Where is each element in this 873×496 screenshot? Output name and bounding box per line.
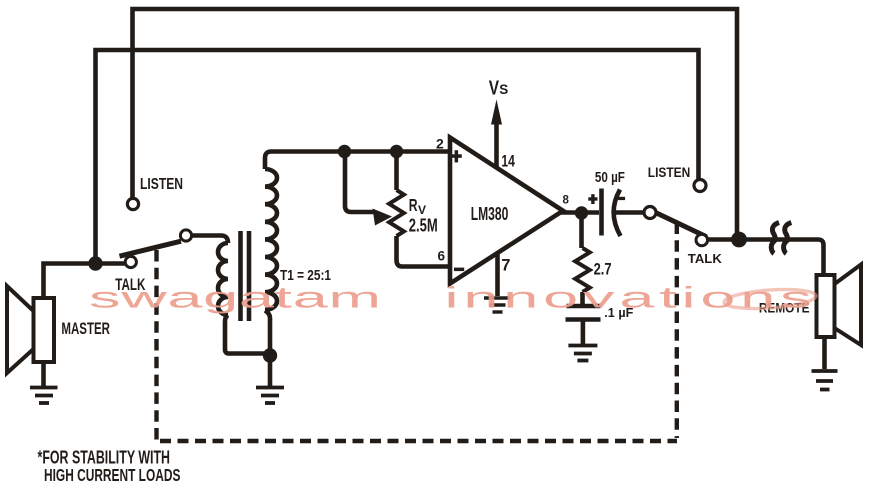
wire: master speaker top to talk wire — [44, 264, 93, 299]
wire: output pin 8 — [559, 210, 599, 215]
watermark: swagatam innovations — [89, 281, 812, 314]
svg-text:8: 8 — [563, 194, 570, 206]
dashed gang link: left vertical — [154, 250, 158, 441]
svg-text:LISTEN: LISTEN — [648, 165, 691, 180]
wire: inner top rail (left TALK bus to right LISTEN) — [96, 50, 699, 264]
ground (under REMOTE) — [812, 371, 838, 390]
svg-text:14: 14 — [501, 153, 515, 171]
svg-text:R: R — [409, 195, 418, 215]
svg-text:V: V — [489, 78, 500, 100]
wire: C1 to right pole — [612, 210, 644, 215]
transformer T1 secondary winding — [265, 169, 277, 310]
svg-text:swagatam: swagatam — [89, 281, 381, 314]
label T1 = 25:1 — [280, 267, 331, 284]
minus sign (C1) — [618, 197, 625, 200]
wire: Rv bottom to pin 6 — [397, 236, 451, 267]
label 14 — [501, 153, 515, 171]
switch arm (right) — [656, 213, 707, 237]
node: output junction dot — [575, 206, 588, 219]
node: junction dot (Rv top) — [390, 145, 403, 158]
label LISTEN (left) — [140, 176, 183, 193]
node: right switch pole — [644, 207, 656, 219]
wire break squiggle 1 — [771, 223, 779, 254]
capacitor C1 50uF curved plate — [614, 190, 621, 237]
node: right TALK contact — [696, 234, 708, 246]
node: transformer ground junction — [263, 348, 277, 362]
note: stability footnote line 2 — [44, 465, 180, 485]
ground (under MASTER) — [30, 388, 58, 404]
node: right LISTEN terminal — [694, 180, 706, 192]
resistor R1 2.7 wire from dot — [579, 213, 584, 248]
pin 8 label — [563, 194, 570, 206]
wire: remote speaker to ground — [822, 337, 827, 369]
svg-text:MASTER: MASTER — [61, 320, 110, 338]
wire: right talk contact to remote speaker — [708, 240, 824, 276]
svg-text:2.7: 2.7 — [594, 261, 612, 279]
ground (pin 7) — [484, 298, 510, 312]
wire: secondary bottom to junction — [265, 310, 270, 350]
wire: secondary top to pin 2 — [265, 152, 451, 170]
wire: outer top rail (left LISTEN to right TALK bus) — [133, 9, 738, 240]
node: junction dot (wiper branch) — [338, 145, 351, 158]
svg-text:LISTEN: LISTEN — [140, 176, 183, 193]
label 50uF — [595, 170, 625, 186]
node: left TALK contact — [125, 256, 136, 267]
dashed gang link: bottom horizontal — [160, 439, 677, 443]
wire: C2 to ground — [581, 322, 586, 345]
node: junction dot left (inner rail to talk wire) — [88, 256, 102, 270]
svg-text:7: 7 — [501, 256, 510, 274]
svg-text:LM380: LM380 — [471, 204, 509, 224]
svg-text:TALK: TALK — [688, 251, 723, 266]
wire: dot to left TALK contact — [96, 261, 127, 266]
wire: primary bottom to junction — [225, 315, 266, 354]
label REMOTE — [759, 300, 810, 316]
speaker REMOTE — [817, 265, 862, 346]
resistor Rv 2.5M (zigzag) — [389, 190, 404, 236]
label MASTER — [61, 320, 110, 338]
op-amp U1 LM380 — [450, 138, 563, 284]
plus input symbol — [451, 150, 462, 162]
Vs supply arrow — [491, 100, 502, 125]
label Vs — [489, 78, 509, 100]
wire: master speaker bottom to ground — [41, 362, 46, 386]
label Rv — [409, 195, 426, 217]
ground (under C2) — [568, 346, 597, 361]
plus sign (C1) — [588, 194, 597, 204]
svg-text:2: 2 — [436, 136, 444, 152]
resistor R1 2.7 (zigzag) — [575, 248, 590, 292]
transformer T1 primary winding — [218, 243, 228, 315]
pin 2 label — [436, 136, 444, 152]
pin 14 wire — [494, 121, 499, 168]
switch arm (left) — [120, 241, 182, 256]
wire: R1 to C2 — [580, 292, 585, 304]
wire: junction to ground — [268, 356, 273, 387]
label 2.7 — [594, 261, 612, 279]
dashed gang link: right vertical — [675, 223, 679, 439]
speaker MASTER — [7, 286, 54, 373]
wiper arrow of Rv — [373, 209, 393, 226]
note: stability footnote line 1 — [38, 448, 171, 468]
node: left switch pole — [180, 230, 191, 241]
capacitor C2 .1uF bottom plate — [566, 317, 601, 321]
svg-text:6: 6 — [438, 249, 446, 264]
svg-text:HIGH CURRENT LOADS: HIGH CURRENT LOADS — [44, 465, 180, 485]
svg-text:50 µF: 50 µF — [595, 170, 625, 186]
label LISTEN (right) — [648, 165, 691, 180]
label TALK (right) — [688, 251, 723, 266]
svg-text:2.5M: 2.5M — [409, 216, 438, 236]
capacitor C1 50uF plus plate — [599, 189, 604, 236]
wire break squiggle 2 — [784, 223, 792, 254]
label TALK (left) — [115, 276, 145, 294]
label LM380 — [471, 204, 509, 224]
wiper wire of Rv — [345, 152, 374, 213]
label .1uF — [604, 305, 633, 320]
node: left LISTEN terminal — [127, 198, 138, 209]
node: junction dot right (outer rail) — [731, 232, 747, 248]
wire: dot to Rv top — [394, 152, 399, 191]
svg-text:S: S — [499, 82, 508, 97]
capacitor C2 .1uF top plate — [567, 304, 601, 308]
label 2.5M — [409, 216, 438, 236]
ground (under transformer) — [256, 388, 284, 404]
watermark flourish ellipse — [723, 287, 816, 311]
pin 6 label — [438, 249, 446, 264]
wire: left pole to transformer primary — [192, 236, 228, 244]
label 7 — [501, 256, 510, 274]
transformer T1 core — [241, 231, 250, 321]
pin 7 wire — [495, 253, 500, 297]
minus input symbol — [454, 268, 464, 272]
